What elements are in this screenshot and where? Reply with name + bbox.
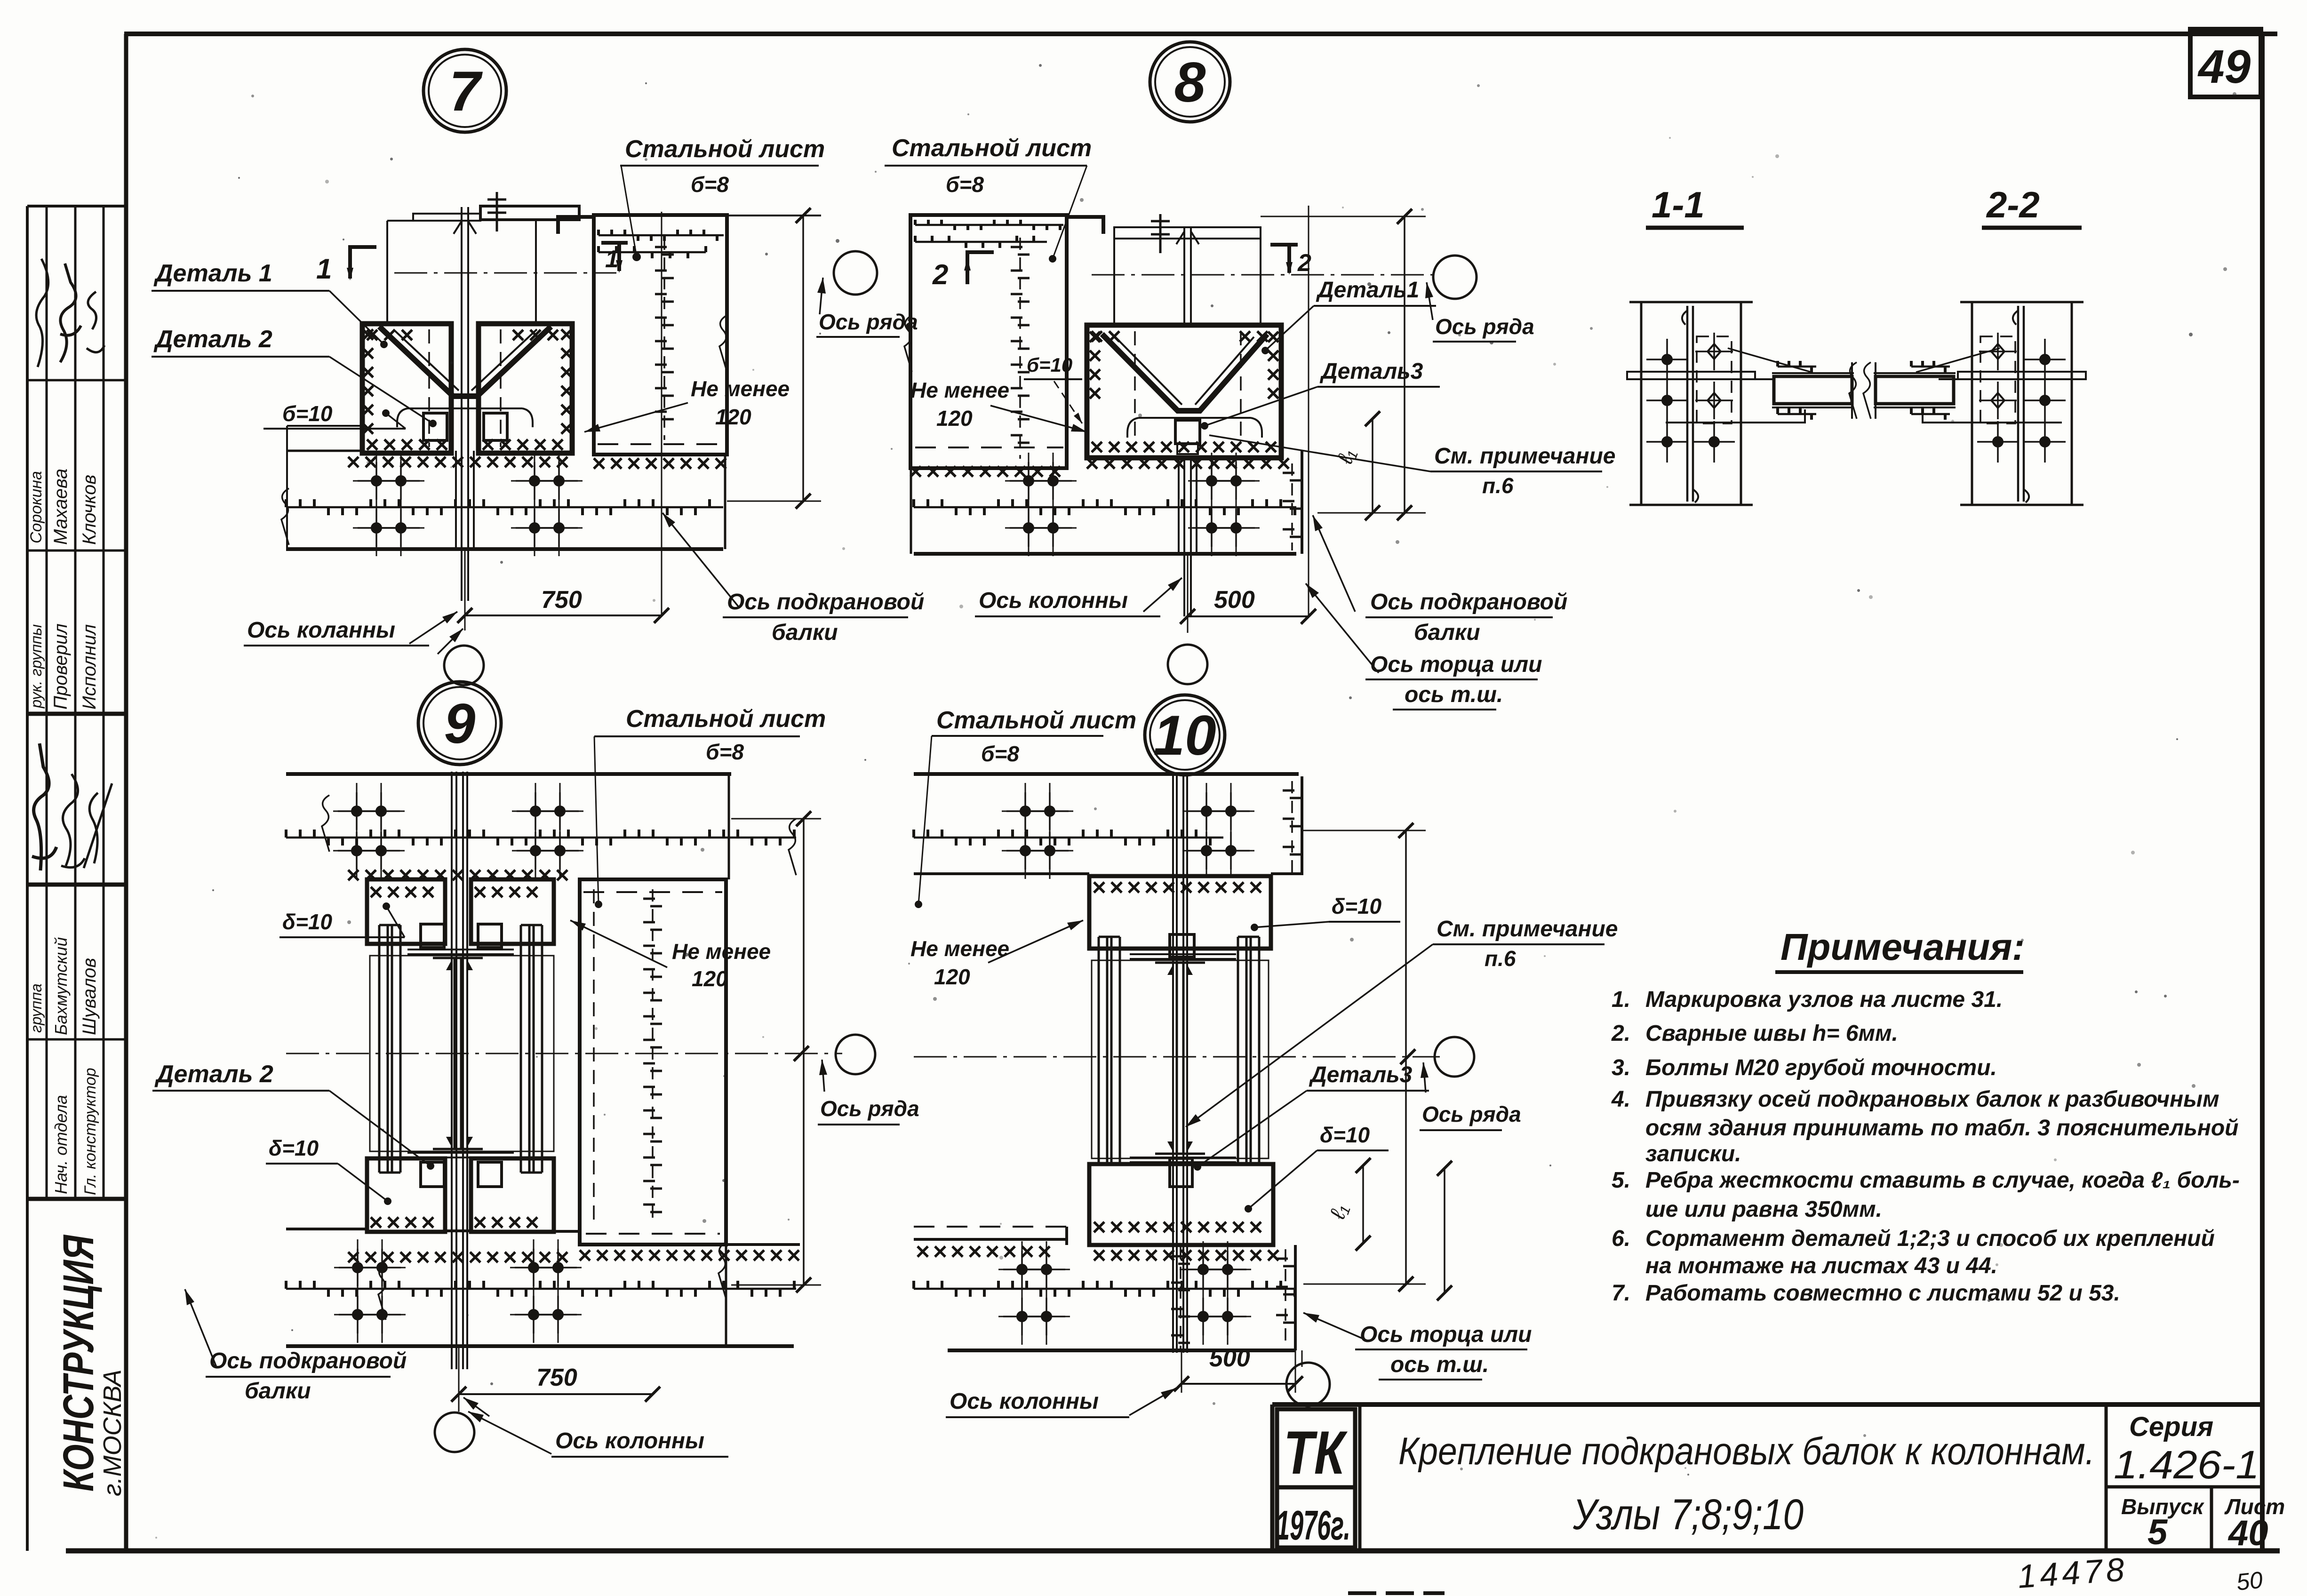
node 9 top band bolts — [351, 806, 362, 817]
node 9 col axis lower — [458, 1346, 460, 1412]
node 8 bubble — [1150, 42, 1230, 122]
stamp row1 signatures — [36, 259, 48, 367]
svg-text:120: 120 — [715, 405, 751, 429]
node 7 beam left segment — [287, 425, 362, 427]
node 7 slab hatch — [363, 329, 373, 434]
node 7 column outline — [386, 221, 388, 451]
svg-text:1.: 1. — [1612, 987, 1630, 1012]
node 9 column splice plates — [451, 772, 453, 1369]
svg-text:Серия: Серия — [2129, 1412, 2213, 1442]
svg-text:записки.: записки. — [1645, 1141, 1741, 1166]
svg-text:10: 10 — [1153, 704, 1216, 767]
node 9 top band weld row — [348, 870, 567, 880]
node 7 bent seat plate — [397, 408, 533, 427]
node 9 top band break — [322, 795, 329, 852]
svg-text:Болты М20 грубой точности.: Болты М20 грубой точности. — [1645, 1055, 1997, 1080]
svg-text:120: 120 — [692, 966, 728, 991]
svg-text:Стальной лист: Стальной лист — [936, 707, 1136, 734]
node 9 right block stiffener — [652, 889, 654, 1223]
node 8 bracket slab — [1087, 325, 1281, 458]
node 10 gusset outline — [1092, 960, 1269, 1158]
node 10 upper detail3 — [1170, 934, 1194, 957]
svg-text:Ось коланны: Ось коланны — [247, 618, 395, 643]
node 9 detail2 plates — [421, 924, 444, 948]
svg-text:50: 50 — [2235, 1566, 2264, 1596]
svg-text:Проверил: Проверил — [50, 623, 71, 710]
node 8 slab hatch — [1090, 332, 1100, 399]
svg-text:Деталь 2: Деталь 2 — [153, 326, 272, 353]
svg-text:Сорокина: Сорокина — [27, 471, 45, 543]
stamp strip outer verticals — [26, 206, 29, 1551]
node 10 long bolts — [1098, 937, 1100, 1177]
node 9 seat plates plan — [407, 949, 514, 950]
node 9 bottom band top edge — [286, 1228, 367, 1230]
node 9 column I-section — [454, 958, 456, 1149]
svg-text:40: 40 — [2227, 1513, 2268, 1553]
svg-text:Клочков: Клочков — [79, 475, 100, 545]
svg-text:Ось подкрановой: Ось подкрановой — [209, 1349, 407, 1373]
node 7 top left plate — [413, 214, 480, 221]
node 9 band end verticals — [728, 774, 730, 879]
svg-text:ось т.ш.: ось т.ш. — [1405, 682, 1503, 707]
svg-text:балки: балки — [245, 1379, 311, 1404]
svg-text:Деталь3: Деталь3 — [1309, 1062, 1413, 1087]
title block right column — [2105, 1404, 2108, 1551]
svg-text:500: 500 — [1209, 1345, 1250, 1372]
node 9 bottom band bolts — [352, 1262, 363, 1273]
node 9 right block bottom weld — [580, 1250, 799, 1261]
node 10 top band top edge — [914, 772, 1299, 776]
svg-text:3.: 3. — [1612, 1055, 1630, 1080]
svg-text:Махаева: Махаева — [50, 469, 71, 545]
svg-text:Привязку осей подкрановых б: Привязку осей подкрановых балок к разбив… — [1645, 1087, 2219, 1112]
svg-text:2: 2 — [1297, 249, 1311, 277]
node 9 bottom band weld row — [348, 1252, 567, 1262]
node 9 right sheet block — [580, 879, 726, 1245]
svg-text:б=10: б=10 — [282, 401, 333, 426]
svg-text:Нач. отдела: Нач. отдела — [51, 1095, 71, 1194]
node 8 beam right end edge — [1301, 451, 1303, 554]
node 10 column I-section — [1176, 963, 1178, 1154]
node 8 top cap plate — [1114, 227, 1261, 239]
node 8 l1 dim — [1372, 419, 1373, 513]
svg-text:7: 7 — [449, 60, 483, 123]
node 9 axis bubble — [435, 1412, 474, 1452]
svg-text:б=8: б=8 — [946, 172, 984, 197]
svg-text:9: 9 — [444, 692, 476, 755]
node 9 splice seam right squiggle — [789, 819, 796, 875]
svg-text:б=8: б=8 — [691, 172, 729, 197]
node 7 V gusset detail 1 — [379, 327, 551, 396]
svg-text:Стальной лист: Стальной лист — [626, 705, 826, 733]
node 7 detail 2 left — [423, 413, 447, 440]
svg-text:Ось колонны: Ось колонны — [979, 588, 1128, 613]
svg-text:Шувалов: Шувалов — [79, 958, 100, 1035]
svg-text:Ось ряда: Ось ряда — [819, 310, 918, 334]
node 10 bubble — [1145, 695, 1225, 775]
node 10 left band edges — [914, 1226, 1067, 1228]
svg-text:Деталь 1: Деталь 1 — [153, 260, 272, 287]
svg-text:Ось подкрановой: Ось подкрановой — [1370, 590, 1567, 614]
node 8 left block stiffener — [1019, 238, 1021, 459]
node 7 crane beam axis line — [661, 212, 663, 615]
svg-text:Ось подкрановой: Ось подкрановой — [727, 590, 924, 614]
node 8 column axis lower — [1187, 554, 1189, 633]
node 8 crane beam axis — [1308, 206, 1309, 616]
svg-text:5.: 5. — [1612, 1168, 1630, 1193]
svg-text:Ось колонны: Ось колонны — [555, 1428, 704, 1453]
stamp strip horizontals — [27, 205, 126, 207]
section 1-1 beam — [1741, 378, 1774, 380]
svg-text:Ось ряда: Ось ряда — [820, 1096, 919, 1121]
svg-text:п.6: п.6 — [1485, 946, 1516, 971]
node 8 left block dashed bottom — [915, 447, 1063, 448]
node 7 under-slab weld row — [348, 457, 567, 467]
node 7 column web — [461, 207, 463, 601]
node 8 axis row bubble — [1433, 255, 1477, 299]
svg-text:2.: 2. — [1611, 1021, 1630, 1046]
node 8 V gusset — [1102, 334, 1267, 411]
svg-text:δ=10: δ=10 — [1320, 1123, 1370, 1147]
svg-text:Сортамент деталей 1;2;3 и: Сортамент деталей 1;2;3 и способ их креп… — [1645, 1226, 2215, 1251]
svg-text:Исполнил: Исполнил — [79, 624, 100, 710]
svg-text:См. примечание: См. примечание — [1437, 917, 1618, 942]
svg-text:на монтаже на листах 43 и 4: на монтаже на листах 43 и 44. — [1645, 1253, 1997, 1278]
node 9 gusset outline — [370, 956, 554, 1151]
node 9 axis row bubble — [836, 1035, 875, 1074]
sheet frame top border — [124, 32, 2277, 36]
node 7 axis bubble bottom — [444, 646, 484, 685]
svg-text:1976г.: 1976г. — [1276, 1502, 1350, 1548]
node 10 l1 second line — [1444, 1168, 1445, 1293]
node 10 upper slab — [1089, 876, 1271, 949]
node 7 top cap plate — [480, 206, 579, 220]
sheet frame bottom border — [66, 1548, 2280, 1554]
svg-text:Гл. конструктор: Гл. конструктор — [81, 1068, 99, 1195]
sheet frame left border — [124, 34, 128, 1551]
svg-text:Не менее: Не менее — [672, 939, 771, 964]
node 7 slab inner dashes — [428, 329, 430, 447]
svg-text:750: 750 — [536, 1364, 577, 1391]
svg-text:Деталь 2: Деталь 2 — [154, 1061, 273, 1088]
svg-text:δ=10: δ=10 — [282, 910, 333, 934]
node 10 column splice line — [1172, 773, 1174, 1353]
node 8 slab dashes — [1134, 331, 1136, 444]
svg-text:Бахмутский: Бахмутский — [51, 937, 71, 1035]
node 7 beam left break — [281, 488, 289, 545]
svg-text:1: 1 — [316, 253, 332, 285]
node 9 top band top edge — [286, 772, 731, 776]
sheet number box — [2190, 29, 2261, 97]
svg-text:Маркировка узлов на листе 31: Маркировка узлов на листе 31. — [1645, 987, 2003, 1012]
title block divider — [1358, 1404, 1362, 1551]
title block year cell — [1277, 1487, 1355, 1548]
svg-text:Ось торца или: Ось торца или — [1360, 1322, 1532, 1347]
node 8 beam bolts — [1023, 475, 1034, 487]
svg-text:рук. группы: рук. группы — [27, 624, 45, 709]
svg-text:1-1: 1-1 — [1652, 184, 1705, 225]
svg-text:120: 120 — [936, 406, 973, 431]
svg-text:1: 1 — [605, 246, 619, 273]
node 7 anchor bolt on cap — [496, 192, 498, 231]
svg-text:Узлы 7;8;9;10: Узлы 7;8;9;10 — [1573, 1491, 1804, 1539]
node 8 column outline — [1113, 239, 1115, 458]
node 7 right block weld row below — [594, 458, 726, 469]
svg-text:Ось колонны: Ось колонны — [950, 1389, 1099, 1414]
node 7 detail 2 right — [484, 413, 507, 440]
svg-text:Стальной лист: Стальной лист — [892, 135, 1092, 162]
svg-text:Деталь3: Деталь3 — [1319, 359, 1423, 384]
node 7 band right edge — [724, 455, 726, 549]
node 8 axis bubble bottom — [1168, 645, 1207, 684]
node 10 dim 500 — [1181, 1383, 1295, 1385]
node 10 top band right end — [1301, 776, 1303, 875]
node 9 bottom band splice — [286, 1288, 796, 1290]
svg-text:б=8: б=8 — [706, 740, 744, 764]
node 8 beam under-slab weld row — [910, 466, 1060, 477]
svg-text:Сварные швы h= 6мм.: Сварные швы h= 6мм. — [1645, 1021, 1898, 1046]
node 7 dim 750 — [465, 614, 662, 616]
node 7 vertical dim line — [802, 215, 804, 501]
node 7 right block dashed bottom — [598, 443, 725, 445]
node 7 beam bolts left — [371, 475, 382, 487]
node 9 bottom band break — [378, 1263, 386, 1320]
section 1-1 column — [1640, 302, 1643, 505]
svg-text:Не менее: Не менее — [910, 936, 1009, 961]
node 10 l1 dim — [1362, 1165, 1364, 1243]
node 7 centreline — [394, 272, 616, 274]
svg-text:14478: 14478 — [2017, 1551, 2130, 1595]
svg-text:Не менее: Не менее — [910, 378, 1009, 402]
node 9 web fillets — [446, 960, 473, 1147]
node 8 band left edge — [910, 468, 912, 554]
scan specks — [1388, 331, 1390, 334]
svg-text:8: 8 — [1174, 51, 1206, 114]
node 7 beam bottom edge — [286, 547, 723, 551]
svg-text:Крепление подкрановых балок: Крепление подкрановых балок к колоннам. — [1398, 1430, 2095, 1473]
node 10 bottom band — [1094, 1250, 1278, 1261]
svg-text:группа: группа — [27, 983, 45, 1033]
node 7 right block stiffener line — [663, 238, 665, 440]
svg-text:2-2: 2-2 — [1986, 184, 2040, 225]
node 8 detail 3 — [1175, 420, 1200, 444]
svg-text:δ=10: δ=10 — [1332, 894, 1382, 918]
node 9 bottom band bottom edge — [286, 1344, 794, 1348]
svg-text:Ребра жесткости ставить в с: Ребра жесткости ставить в случае, когда … — [1645, 1168, 2240, 1193]
node 7 axis row label — [820, 278, 823, 314]
node 10 axis row bubble — [1435, 1037, 1474, 1077]
sheet frame right border — [2260, 34, 2265, 1553]
svg-text:осям здания принимать по т: осям здания принимать по табл. 3 пояснит… — [1645, 1116, 2239, 1141]
svg-text:δ=10: δ=10 — [269, 1136, 319, 1160]
svg-text:Деталь1: Деталь1 — [1316, 278, 1419, 303]
node 9 upper slabs — [367, 879, 445, 944]
node 8 column web — [1183, 228, 1185, 616]
svg-text:4.: 4. — [1611, 1087, 1630, 1112]
node 10 seat plates — [1130, 953, 1236, 955]
node 8 left beam block — [910, 215, 1067, 468]
node 7 left bracket slab — [362, 324, 451, 453]
node 9 right block dashed left — [593, 889, 595, 1226]
svg-text:Не менее: Не менее — [691, 376, 790, 401]
node 9 dim 750 — [459, 1393, 653, 1395]
node 9 centreline — [286, 1053, 842, 1054]
node 9 top band splice seam — [286, 837, 796, 839]
node 10 vertical dim — [1405, 830, 1407, 1284]
node 10 centreline — [914, 1056, 1440, 1058]
svg-text:120: 120 — [934, 965, 970, 989]
svg-text:2: 2 — [932, 259, 948, 290]
node 8 beam splice seam — [914, 506, 1296, 509]
node 7 right steel sheet block — [594, 215, 727, 455]
node 10 lower slab — [1089, 1164, 1273, 1245]
title block TK cell — [1277, 1409, 1355, 1487]
node 8 beam bottom edge — [914, 552, 1296, 556]
node 7 right block comb top — [599, 234, 724, 237]
svg-text:5: 5 — [2147, 1512, 2168, 1552]
node 7 right bracket slab — [479, 324, 572, 453]
svg-text:750: 750 — [541, 586, 582, 614]
node 9 long bolts right — [520, 925, 522, 1173]
section 2-2 beam — [1939, 378, 1972, 380]
node 7 beam splice seam — [286, 506, 723, 509]
node 7 column axis line lower — [464, 549, 466, 630]
svg-text:Стальной лист: Стальной лист — [625, 136, 825, 163]
svg-text:ше или равна 350мм.: ше или равна 350мм. — [1645, 1197, 1882, 1222]
svg-text:п.6: п.6 — [1482, 473, 1514, 498]
node 10 top band bottom edge — [914, 872, 1089, 875]
svg-text:Примечания:: Примечания: — [1780, 926, 2025, 968]
svg-text:Ось ряда: Ось ряда — [1422, 1102, 1521, 1126]
svg-text:Ось торца или: Ось торца или — [1370, 652, 1542, 677]
node 10 web fillets — [1167, 965, 1193, 1152]
svg-text:500: 500 — [1214, 586, 1255, 614]
bottom left mark — [1348, 1591, 1445, 1595]
node 8 vertical dim — [1404, 216, 1405, 513]
node 10 axis bubble — [1286, 1363, 1330, 1406]
node 9 right block dashed top — [583, 891, 722, 893]
svg-text:балки: балки — [1414, 620, 1480, 645]
svg-text:б=10: б=10 — [1027, 354, 1072, 376]
svg-text:б=8: б=8 — [981, 742, 1019, 766]
svg-text:6.: 6. — [1612, 1226, 1630, 1251]
svg-text:См. примечание: См. примечание — [1434, 444, 1616, 469]
svg-text:ТК: ТК — [1284, 1418, 1348, 1487]
node 9 vertical dim — [803, 819, 805, 1285]
svg-text:ось т.ш.: ось т.ш. — [1390, 1352, 1489, 1377]
svg-text:49: 49 — [2197, 40, 2251, 93]
section 2-2 column — [1971, 302, 1973, 505]
svg-text:7.: 7. — [1612, 1281, 1630, 1306]
svg-text:балки: балки — [772, 620, 838, 645]
node 7 section mark 1 right — [601, 241, 628, 245]
node 8 dim 500 — [1188, 615, 1309, 617]
node 8 centreline — [1092, 274, 1435, 276]
node 8 bent seat plate — [1127, 418, 1262, 438]
svg-text:Ось ряда: Ось ряда — [1435, 314, 1534, 339]
node 9 lower slabs — [367, 1158, 445, 1232]
node 9 bubble — [418, 682, 501, 765]
node 8 section mark 2 right — [1270, 243, 1298, 247]
node 10 top band splice — [914, 837, 1223, 839]
stamp row4 signatures — [32, 743, 56, 870]
node 10 lower detail3 — [1170, 1158, 1192, 1187]
svg-text:1.426-1: 1.426-1 — [2114, 1443, 2259, 1487]
node 7 bubble — [423, 49, 506, 132]
node 7 axis row bubble — [834, 251, 877, 295]
svg-text:Работать совместно с листам: Работать совместно с листами 52 и 53. — [1645, 1281, 2120, 1306]
svg-text:г.МОСКВА: г.МОСКВА — [98, 1369, 127, 1496]
node 10 top band bolts — [1020, 806, 1031, 817]
node 8 anchor bolt on cap — [1159, 214, 1162, 253]
svg-text:КОНСТРУКЦИЯ: КОНСТРУКЦИЯ — [55, 1234, 103, 1492]
node 7 beam bolts right — [529, 475, 540, 487]
node 8 left block comb top — [915, 224, 1063, 226]
title block outline — [1272, 1402, 2262, 1407]
node 9 long bolts left — [378, 925, 381, 1173]
